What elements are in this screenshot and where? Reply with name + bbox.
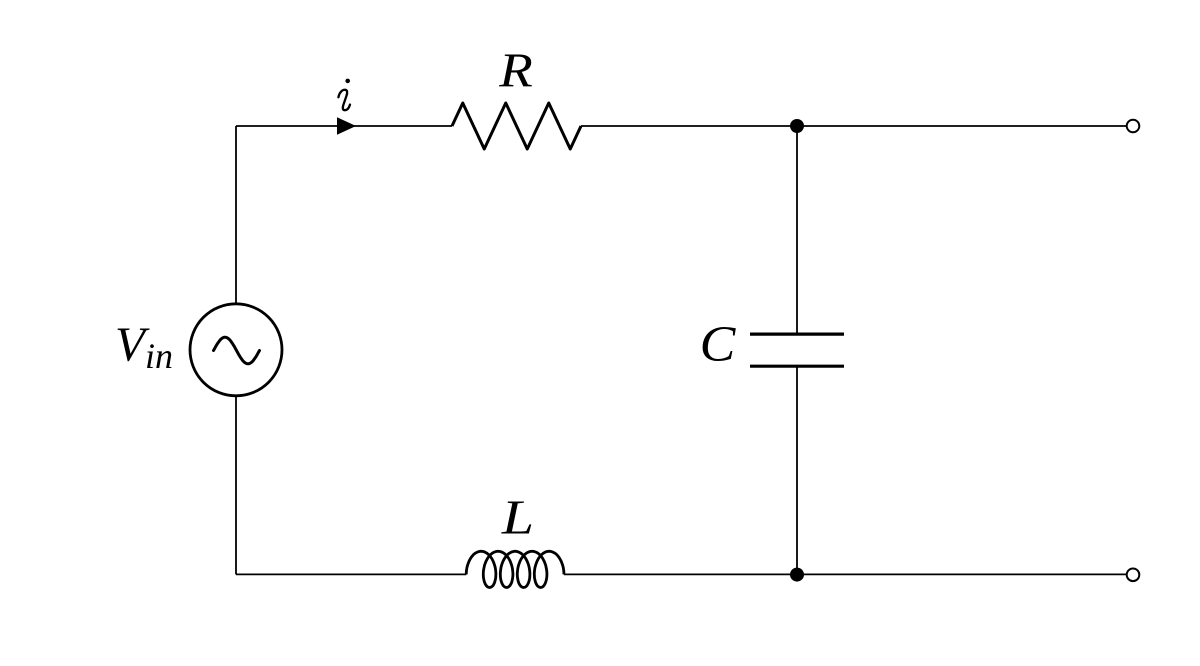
wire top (resistor to node A)	[581, 125, 797, 127]
inductor L coil	[466, 551, 564, 587]
source sine wave	[214, 337, 260, 364]
current arrow on top wire	[337, 117, 356, 134]
svg-text:L: L	[501, 490, 534, 545]
junction node A dot	[790, 119, 804, 133]
wire top (node A to right terminal)	[797, 125, 1127, 127]
wire bottom (node B to right terminal)	[797, 573, 1127, 575]
terminal bottom right open circle	[1127, 569, 1140, 582]
junction node B dot	[790, 568, 804, 582]
wire left vertical (source bottom to bottom wire)	[235, 396, 237, 574]
wire left vertical (top wire down to source top)	[235, 126, 237, 304]
wire bottom (inductor to node B)	[564, 573, 797, 575]
wire bottom left (source to inductor)	[236, 573, 466, 575]
capacitor C bottom plate	[750, 365, 844, 368]
terminal top right open circle	[1127, 120, 1140, 133]
source V_in circle	[190, 304, 282, 396]
svg-text:C: C	[700, 316, 737, 373]
svg-text:R: R	[498, 44, 533, 98]
wire capacitor top lead	[796, 126, 798, 334]
capacitor C top plate	[750, 333, 844, 336]
wire capacitor bottom lead	[796, 366, 798, 574]
resistor R zigzag	[452, 103, 581, 149]
label i	[338, 90, 350, 110]
wire top left horizontal (source top to resistor)	[236, 125, 452, 127]
svg-text:Vin: Vin	[115, 316, 173, 376]
